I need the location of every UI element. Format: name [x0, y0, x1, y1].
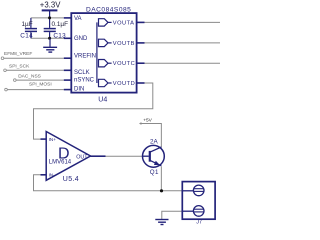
svg-text:U5.4: U5.4: [63, 176, 79, 183]
pin VREFIN: [64, 57, 72, 59]
svg-text:DAC084S085: DAC084S085: [86, 7, 131, 14]
pin OUT: [91, 155, 106, 157]
capacitor C13: [44, 18, 56, 38]
svg-text:VOUTC: VOUTC: [113, 61, 135, 67]
pin 1: [182, 190, 193, 192]
svg-text:LMV614: LMV614: [49, 160, 72, 166]
op-amp U5.4 LMV614: [41, 132, 106, 184]
svg-text:VA: VA: [74, 16, 82, 22]
svg-text:VOUTA: VOUTA: [113, 20, 135, 26]
wire SPI_MOSI to DIN: [6, 89, 64, 91]
DAC output glyph A: [99, 19, 112, 26]
pin SCLK: [64, 69, 72, 71]
wire VOUTC to right edge: [145, 62, 221, 64]
svg-text:GND: GND: [74, 36, 88, 42]
DAC output glyph C: [99, 60, 112, 67]
emitter arrow: [154, 161, 160, 166]
net port SPI_SCK: [4, 69, 7, 72]
wire Q1 emitter to node: [160, 166, 162, 191]
emitter: [150, 160, 162, 166]
internal bus line of DAC glyphs: [96, 22, 98, 83]
svg-text:IN-: IN-: [49, 173, 56, 178]
wire op-amp OUT to Q1 base: [106, 155, 143, 157]
svg-text:J7: J7: [196, 220, 202, 226]
pin nSYNC: [64, 79, 72, 81]
svg-text:VREFIN: VREFIN: [74, 54, 96, 60]
svg-text:1µF: 1µF: [22, 21, 33, 28]
wire EFM8_VREF to VREFIN: [3, 57, 64, 59]
ground (J7 pin2): [155, 220, 168, 225]
connector J7: [182, 182, 215, 226]
wire GND row to chip: [31, 37, 64, 39]
wire +5V to Q1 collector: [140, 124, 161, 148]
pin IN-: [41, 174, 47, 176]
power +3.3V: [40, 1, 61, 18]
wire J7 pin2 to ground: [162, 211, 183, 219]
pin VA: [64, 17, 72, 19]
base lead inside: [143, 155, 149, 157]
svg-text:+3.3V: +3.3V: [40, 1, 61, 10]
svg-text:IN+: IN+: [49, 137, 57, 142]
junction node VA/C13 top: [48, 16, 51, 19]
IC U4 DAC084S085 body: [71, 13, 136, 93]
pin 2: [182, 210, 193, 212]
collector: [150, 147, 162, 152]
net port EFM8_VREF: [1, 57, 4, 60]
svg-text:+5V: +5V: [143, 117, 152, 123]
svg-text:OUT: OUT: [76, 155, 88, 161]
svg-text:Q1: Q1: [150, 169, 159, 176]
junction node C13 bottom / gnd: [48, 37, 51, 40]
net port SPI_MOSI: [5, 88, 8, 91]
junction node emitter/feedback/J7: [160, 189, 163, 192]
svg-text:2A: 2A: [150, 138, 159, 145]
svg-text:SCLK: SCLK: [74, 70, 90, 76]
svg-text:SPI_SCK: SPI_SCK: [9, 64, 30, 70]
pin IN+: [41, 138, 47, 140]
svg-text:nSYNC: nSYNC: [74, 78, 95, 84]
net port DAC_NSS: [14, 79, 17, 82]
svg-text:C14: C14: [20, 32, 33, 39]
ground (capacitors): [43, 38, 57, 52]
wire VOUTA to right edge: [145, 21, 221, 23]
DAC output glyph D: [99, 79, 112, 86]
wire op-amp IN- feedback to emitter node: [34, 175, 162, 191]
svg-text:EFM8_VREF: EFM8_VREF: [4, 51, 32, 57]
transistor Q1: [143, 138, 165, 175]
wire +3.3V to VA pin: [31, 17, 64, 19]
svg-text:DIN: DIN: [74, 86, 84, 92]
base bar: [149, 151, 151, 162]
capacitor C14: [25, 18, 37, 38]
wire SPI_SCK to SCLK: [5, 69, 64, 71]
svg-text:DAC_NSS: DAC_NSS: [18, 74, 41, 80]
wire DAC_NSS to nSYNC: [15, 79, 64, 81]
svg-text:VOUTD: VOUTD: [113, 81, 135, 87]
DAC output glyph B: [99, 39, 112, 46]
power +5V: [139, 117, 153, 125]
svg-text:0.1µF: 0.1µF: [52, 21, 69, 28]
wire VOUTD loop to op-amp IN+: [34, 83, 153, 139]
svg-text:U4: U4: [98, 97, 107, 104]
wire node to J7 pin1: [162, 190, 183, 192]
pin GND: [64, 37, 72, 39]
wire VOUTB to right edge: [145, 42, 221, 44]
pin DIN: [64, 89, 72, 91]
svg-text:SPI_MOSI: SPI_MOSI: [29, 81, 52, 87]
svg-text:VOUTB: VOUTB: [113, 41, 135, 47]
